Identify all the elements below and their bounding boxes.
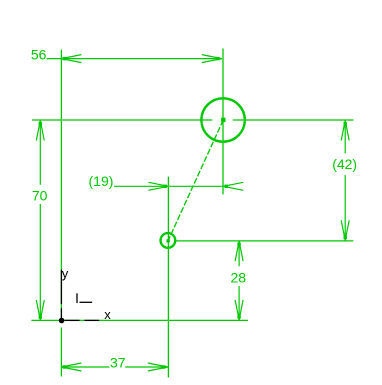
small circle center point: [167, 239, 170, 242]
sketch plane L symbol: [77, 293, 92, 303]
sketch line bottom edge: [31, 319, 248, 321]
construction dashed line between circle centers: [168, 120, 223, 241]
sketch line top edge (left part, ends inside circle): [32, 119, 212, 121]
svg-text:56: 56: [31, 46, 47, 62]
big circle: [201, 98, 244, 141]
dimension 28 top arrow: [235, 241, 243, 261]
dimension (19) left arrow (outside): [148, 182, 168, 190]
big circle center point: [221, 118, 225, 122]
dimension 70 bottom arrow: [36, 300, 44, 320]
dimension 56 line: [47, 58, 222, 60]
dimension (42) line (lower segment): [344, 175, 346, 240]
extension line below origin: [60, 328, 62, 377]
dimension 37 right arrow: [148, 363, 168, 371]
extension line through small circle: [167, 177, 169, 378]
dimension (19) line: [114, 185, 223, 187]
dimension 37 line (right segment): [125, 366, 168, 368]
extension line through big circle: [222, 49, 224, 195]
y axis (black, lower dash): [60, 308, 62, 320]
sketch line top edge (right part, from inside circle): [233, 119, 354, 121]
x axis dash 2: [84, 319, 99, 321]
x axis dash 1: [65, 319, 80, 321]
dimension (42) bottom arrow: [341, 220, 349, 240]
dimension 28 bottom arrow: [235, 300, 243, 320]
svg-text:(19): (19): [89, 173, 114, 189]
dimension 56 right arrow: [202, 55, 222, 63]
svg-text:(42): (42): [332, 156, 357, 172]
svg-text:70: 70: [32, 187, 48, 203]
dimension 37 left arrow: [61, 363, 81, 371]
extension line through origin (upper): [60, 50, 62, 318]
dimension 70 line (lower segment): [39, 204, 41, 320]
svg-text:37: 37: [110, 354, 126, 370]
y axis (black, upper dash): [60, 270, 62, 305]
dimension (42) line (upper segment): [344, 121, 346, 154]
dimension 70 top arrow: [36, 121, 44, 141]
origin point: [59, 318, 65, 324]
small circle: [161, 233, 176, 248]
svg-text:y: y: [62, 266, 69, 281]
svg-text:x: x: [104, 307, 111, 322]
dimension 28 line (upper segment): [238, 241, 240, 266]
dimension (19) right arrow (outside): [223, 182, 243, 190]
sketch line middle (small circle to right edge): [174, 240, 353, 242]
svg-text:28: 28: [231, 269, 247, 285]
dimension 56 left arrow: [61, 55, 81, 63]
dimension 70 line (upper segment): [39, 121, 41, 185]
dimension 37 line (left segment): [61, 366, 109, 368]
dimension (42) top arrow: [341, 121, 349, 141]
dimension 28 line (lower segment): [238, 286, 240, 320]
